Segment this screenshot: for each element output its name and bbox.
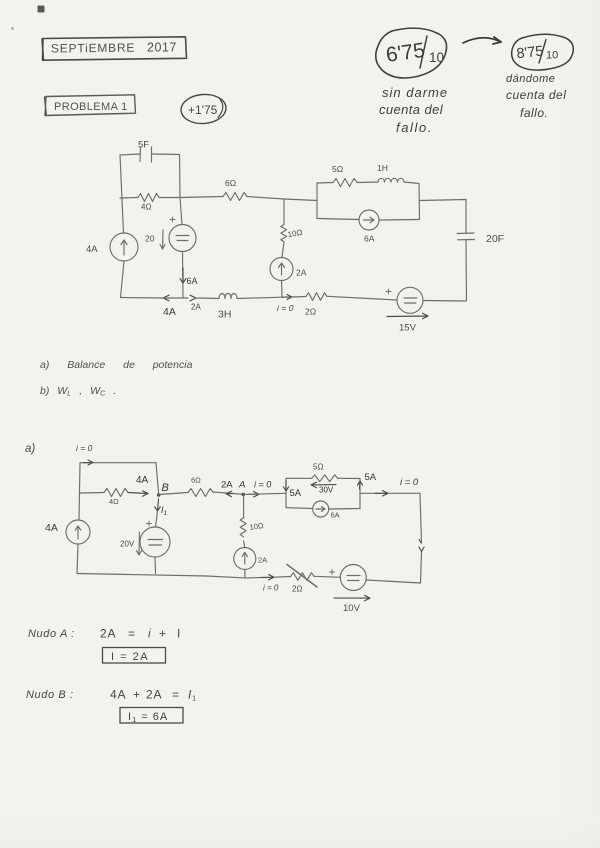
current label I1 arrow (155, 499, 168, 517)
note: sin darme cuenta del fallo (379, 85, 448, 135)
svg-text:i = 0: i = 0 (277, 303, 294, 313)
node A equation (28, 627, 181, 641)
voltage source 20V (145, 217, 196, 252)
inductor 1H (377, 163, 404, 182)
svg-text:4A: 4A (86, 244, 98, 255)
wire 20V down (154, 557, 157, 574)
svg-text:15V: 15V (399, 323, 417, 334)
wire 2ohm to 15V (327, 296, 397, 300)
wire loop top left (317, 182, 333, 185)
svg-text:20: 20 (145, 234, 155, 244)
wire loop top left (286, 477, 312, 479)
svg-text:cuenta del: cuenta del (379, 102, 444, 117)
wire left vertical (79, 463, 80, 520)
wire left vertical bottom (77, 544, 78, 574)
wire junction to 10ohm (283, 199, 285, 225)
wire left vertical top (120, 155, 124, 233)
resistor 5ohm (332, 164, 357, 187)
question b text (40, 385, 116, 398)
svg-text:2A: 2A (296, 268, 307, 278)
svg-text:fallo.: fallo. (520, 106, 548, 120)
wire 3H to junction (237, 297, 282, 298)
node B equation (26, 688, 197, 703)
grade bubble 6'75/10 (376, 28, 447, 78)
wire B to 6ohm (159, 493, 188, 495)
wire right side of 5F loop (179, 155, 182, 198)
svg-text:6A: 6A (364, 234, 375, 244)
wire capacitor down to bottom (465, 240, 468, 301)
wire 6A to loop corner (379, 219, 420, 222)
svg-text:Nudo A :: Nudo A : (28, 628, 75, 640)
wire A to right loop (243, 493, 286, 494)
svg-text:2A: 2A (258, 556, 267, 565)
wire 2ohm to 10V (314, 576, 340, 577)
resistor 6ohm (223, 178, 247, 201)
current source 2A (234, 548, 267, 570)
resistor 4ohm (104, 489, 128, 507)
wire bottom left segment (121, 297, 164, 300)
wire right loop right edge with 5A arrow (357, 472, 376, 509)
wire top of 5F loop (120, 154, 180, 155)
svg-text:3H: 3H (218, 309, 231, 321)
wire right vertical with arrow (419, 493, 424, 583)
wire main to 4ohm (80, 492, 104, 495)
svg-text:30V: 30V (319, 486, 334, 495)
svg-text:SEPTiEMBRE: SEPTiEMBRE (51, 41, 135, 56)
svg-text:2A: 2A (221, 480, 233, 491)
grade bubble 8'75/10 (512, 34, 574, 70)
scan speck top-left (11, 6, 45, 31)
current source 6A (313, 501, 340, 520)
capacitor 20F (457, 233, 504, 245)
svg-text:5Ω: 5Ω (332, 164, 343, 174)
current label 2A arrow right (190, 295, 201, 311)
note: dandome cuenta del fallo (506, 73, 566, 120)
wire right loop left edge with 5A arrow (283, 478, 301, 507)
resistor 10ohm (240, 518, 264, 537)
current source 6A (359, 210, 379, 244)
current label 4A arrow left (163, 295, 176, 318)
wire to 2ohm (292, 296, 306, 299)
svg-text:sin darme: sin darme (382, 85, 448, 100)
inductor 3H (218, 294, 237, 321)
svg-text:B: B (162, 482, 169, 494)
svg-text:6Ω: 6Ω (225, 178, 236, 188)
resistor 2ohm (305, 293, 327, 317)
wire left vertical bottom (121, 261, 125, 298)
wire dead top branch with i=0 (76, 443, 159, 495)
current label i=0 arrow bottom (262, 575, 279, 593)
wire 6ohm to node A with 2A arrow (213, 480, 243, 497)
node A (238, 480, 245, 497)
wire A down (243, 494, 245, 517)
wire node to 20V source (180, 198, 182, 225)
boxed result I1=6A (120, 708, 183, 725)
voltage source 15V (386, 287, 428, 333)
question a text (40, 359, 193, 371)
wire bottom to 3H (196, 297, 219, 300)
svg-text:4A: 4A (136, 475, 149, 486)
svg-text:10: 10 (429, 50, 444, 65)
wire 1H to loop corner (404, 182, 420, 219)
wire 2A source down (281, 281, 284, 297)
svg-text:20V: 20V (120, 540, 135, 549)
svg-text:i = 0: i = 0 (263, 584, 279, 593)
svg-text:5F: 5F (138, 140, 149, 151)
resistor 5ohm (312, 463, 338, 482)
resistor 4ohm (138, 194, 159, 212)
current source 4A (86, 233, 138, 261)
wire bottom left long (77, 574, 262, 578)
current label 6A arrow (180, 268, 198, 286)
svg-text:2Ω: 2Ω (292, 585, 302, 594)
svg-text:6A: 6A (331, 511, 340, 520)
svg-text:20F: 20F (486, 233, 504, 245)
svg-text:1H: 1H (377, 163, 388, 173)
wire loop bottom left (286, 507, 313, 510)
wire 6ohm to right loop (247, 197, 317, 201)
svg-text:i = 0: i = 0 (400, 477, 419, 488)
resistor 2ohm crossed out (287, 565, 317, 594)
problem box PROBLEMA 1 (45, 95, 136, 116)
svg-text:4A: 4A (163, 306, 176, 318)
wire 10ohm to 2A source (282, 242, 284, 258)
wire 10ohm to 2A (244, 541, 245, 548)
svg-text:fallo.: fallo. (396, 120, 433, 135)
wire to crossed 2ohm (274, 576, 291, 579)
svg-text:b) WL , WC .: b) WL , WC . (40, 385, 116, 398)
wire loop to capacitor branch (420, 200, 467, 234)
svg-text:5Ω: 5Ω (313, 463, 323, 472)
svg-text:+1'75: +1'75 (188, 103, 218, 117)
svg-text:6A: 6A (187, 276, 198, 286)
wire 15V to right corner (423, 300, 467, 303)
wire 20V source down (182, 252, 185, 298)
svg-text:I = 2A: I = 2A (111, 651, 149, 663)
voltage source 10V (330, 565, 371, 615)
svg-text:5A: 5A (365, 472, 377, 483)
resistor 10ohm (281, 225, 303, 243)
svg-text:dándome: dándome (506, 73, 555, 85)
wire main node to 4ohm (120, 197, 138, 200)
boxed result I=2A (103, 648, 166, 664)
current source 2A (270, 258, 307, 281)
svg-text:Nudo B :: Nudo B : (26, 689, 74, 701)
voltage source 20V (120, 521, 170, 557)
wire 10V to right corner (366, 580, 420, 583)
svg-text:a) Balance de potencia: a) Balance de potencia (40, 359, 193, 371)
wire loop top right corner (338, 477, 360, 479)
title box SEPTIEMBRE 2017 (42, 37, 187, 61)
wire loop bottom left (317, 219, 359, 220)
svg-text:4A: 4A (45, 522, 58, 534)
svg-text:5A: 5A (290, 488, 302, 499)
wire B down to 20V (156, 511, 158, 527)
wire 4ohm to 6ohm (159, 197, 223, 198)
wire loop bottom right (329, 508, 360, 511)
svg-text:2A: 2A (191, 303, 201, 312)
wire 5ohm to 1H (357, 181, 378, 184)
svg-text:10V: 10V (343, 603, 361, 614)
svg-text:10: 10 (546, 50, 558, 62)
svg-text:A: A (238, 480, 245, 491)
svg-text:i = 0: i = 0 (76, 443, 93, 453)
resistor 6ohm (188, 476, 213, 497)
svg-text:cuenta del: cuenta del (506, 88, 566, 102)
wire 2A down (244, 570, 246, 578)
score bubble +1'75 (180, 93, 227, 125)
voltage label 30V arrow (311, 482, 336, 494)
capacitor 5F (138, 140, 152, 163)
node B (157, 482, 169, 497)
svg-text:4Ω: 4Ω (141, 203, 151, 212)
current label i=0 arrow (277, 295, 294, 314)
svg-text:4Ω: 4Ω (109, 497, 119, 506)
part a label (25, 443, 35, 455)
current source 4A (45, 520, 90, 544)
svg-text:6Ω: 6Ω (191, 476, 201, 485)
svg-text:PROBLEMA 1: PROBLEMA 1 (54, 101, 128, 113)
wire bottom (163, 297, 188, 299)
wire loop to right edge with i=0 (360, 477, 420, 496)
current label i=0 at A (248, 480, 271, 498)
wire right loop left edge (316, 183, 318, 219)
arrow to corrected grade (463, 37, 501, 44)
svg-text:2Ω: 2Ω (305, 307, 316, 317)
current label 4A arrow (128, 475, 149, 496)
svg-text:i = 0: i = 0 (254, 480, 271, 490)
svg-text:2017: 2017 (147, 41, 177, 55)
svg-text:a): a) (25, 443, 35, 455)
